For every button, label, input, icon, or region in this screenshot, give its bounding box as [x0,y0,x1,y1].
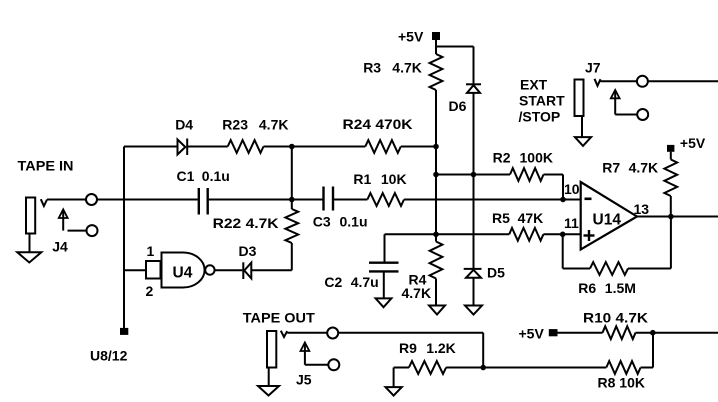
svg-text:4.7u: 4.7u [351,274,379,290]
svg-text:D4: D4 [175,117,193,133]
svg-text:/STOP: /STOP [519,109,561,125]
svg-text:R10 4.7K: R10 4.7K [583,309,648,325]
svg-text:U4: U4 [173,264,193,281]
svg-text:+5V: +5V [680,135,706,151]
svg-text:R24 470K: R24 470K [343,116,413,132]
svg-text:0.1u: 0.1u [202,168,230,184]
svg-text:R2: R2 [493,150,511,166]
svg-text:R3: R3 [363,60,381,76]
svg-text:J5: J5 [296,372,312,388]
svg-text:11: 11 [564,215,579,231]
svg-text:D3: D3 [239,243,257,259]
svg-text:4.7K: 4.7K [629,159,659,175]
svg-text:100K: 100K [520,150,553,166]
svg-text:J4: J4 [52,239,68,255]
svg-text:D5: D5 [487,264,505,280]
svg-text:R22 4.7K: R22 4.7K [213,215,279,231]
svg-text:13: 13 [634,201,650,217]
svg-text:START: START [519,93,565,109]
svg-text:U8/12: U8/12 [90,348,128,364]
svg-text:1: 1 [147,243,155,259]
svg-text:2: 2 [146,283,154,299]
svg-text:R6: R6 [578,280,596,296]
svg-text:4.7K: 4.7K [259,117,289,133]
svg-text:EXT: EXT [520,77,548,93]
svg-text:1.2K: 1.2K [426,340,456,356]
svg-text:47K: 47K [518,210,544,226]
svg-text:C1: C1 [177,168,195,184]
svg-text:R7: R7 [602,159,620,175]
svg-text:R5: R5 [492,210,510,226]
svg-text:U14: U14 [593,211,622,228]
svg-text:J7: J7 [585,59,601,75]
svg-text:10K: 10K [381,171,407,187]
svg-text:4.7K: 4.7K [402,285,432,301]
svg-text:TAPE IN: TAPE IN [18,157,74,173]
svg-text:1.5M: 1.5M [605,280,636,296]
svg-text:4.7K: 4.7K [392,60,422,76]
svg-text:R9: R9 [399,340,417,356]
svg-text:D6: D6 [449,98,467,114]
svg-text:TAPE OUT: TAPE OUT [243,309,315,325]
svg-text:R1: R1 [353,171,371,187]
svg-text:C3: C3 [313,214,331,230]
svg-text:+5V: +5V [398,28,424,44]
svg-text:+5V: +5V [519,326,545,342]
svg-text:R23: R23 [222,117,248,133]
svg-text:C2: C2 [324,274,342,290]
svg-text:R8 10K: R8 10K [598,375,645,391]
svg-text:10: 10 [564,181,580,197]
svg-text:0.1u: 0.1u [340,214,368,230]
